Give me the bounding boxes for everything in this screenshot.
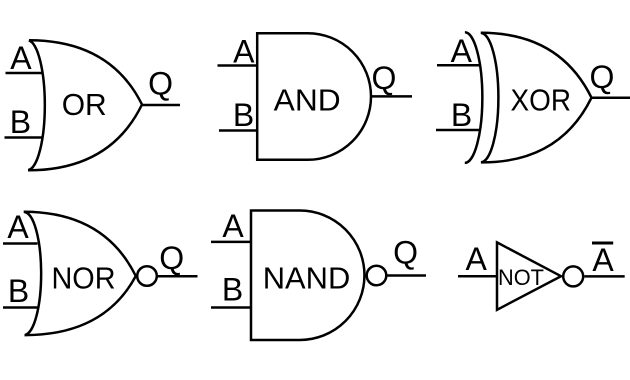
wire NAND input B: [211, 306, 251, 309]
XOR gate U3 input-side arc: [481, 33, 499, 162]
wire NOR input B: [3, 306, 38, 309]
svg-text:Q: Q: [159, 240, 184, 276]
svg-text:A: A: [233, 34, 255, 70]
wire NOT input A: [458, 275, 497, 278]
svg-text:OR: OR: [62, 87, 107, 122]
svg-text:B: B: [233, 97, 254, 133]
svg-text:Q: Q: [148, 66, 173, 102]
wire NAND input A: [211, 241, 251, 244]
wire NAND output Q: [388, 274, 427, 277]
svg-text:A: A: [451, 33, 473, 69]
svg-text:AND: AND: [274, 83, 341, 118]
wire NOR output Q: [157, 275, 198, 278]
svg-text:A: A: [592, 242, 614, 278]
NOR inversion bubble: [137, 266, 157, 286]
svg-text:B: B: [451, 97, 472, 133]
NAND gate U5 body: [251, 211, 364, 341]
wire NOT output: [585, 275, 625, 278]
svg-text:Q: Q: [393, 235, 418, 271]
svg-text:XOR: XOR: [511, 82, 572, 117]
wire XOR input A: [437, 64, 479, 67]
wire NOR input A: [3, 242, 38, 245]
XOR gate U3 leading arc: [465, 32, 483, 163]
svg-text:NAND: NAND: [263, 261, 351, 296]
svg-text:NOR: NOR: [52, 260, 116, 295]
OR gate U1 body: [28, 40, 142, 170]
OR gate U1 input-side arc: [28, 40, 45, 170]
AND gate U2 body: [257, 33, 371, 160]
svg-text:Q: Q: [372, 60, 397, 96]
svg-text:A: A: [10, 40, 32, 76]
wire AND input B: [219, 129, 257, 132]
svg-text:Q: Q: [589, 59, 614, 95]
svg-text:NOT: NOT: [498, 265, 544, 290]
wire XOR output Q: [592, 97, 630, 100]
NOR gate U4 body: [24, 212, 136, 335]
svg-text:A: A: [222, 208, 244, 244]
NOR gate U4 input-side arc: [24, 212, 41, 335]
wire AND output Q: [371, 95, 412, 98]
wire OR input B: [5, 136, 44, 139]
XOR gate U3 body: [481, 33, 592, 163]
svg-text:A: A: [7, 209, 29, 245]
svg-text:A: A: [466, 241, 488, 277]
svg-text:B: B: [10, 104, 31, 140]
wire XOR input B: [436, 129, 481, 132]
NOT gate U6 triangle body: [497, 242, 561, 309]
svg-text:B: B: [8, 273, 29, 309]
svg-text:B: B: [222, 272, 243, 308]
wire OR input A: [6, 72, 44, 75]
wire OR output Q: [142, 104, 180, 107]
wire AND input A: [218, 64, 258, 67]
NAND inversion bubble: [367, 266, 387, 286]
NOT inversion bubble: [563, 266, 583, 286]
NOT output overline bar: [592, 242, 613, 245]
